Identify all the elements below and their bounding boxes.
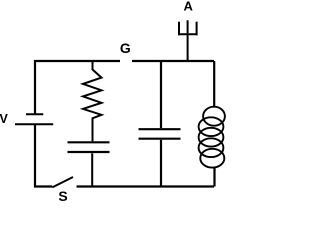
svg-text:S: S <box>58 188 67 201</box>
svg-text:A: A <box>184 0 194 13</box>
svg-text:G: G <box>120 40 131 56</box>
svg-text:V: V <box>0 112 9 126</box>
